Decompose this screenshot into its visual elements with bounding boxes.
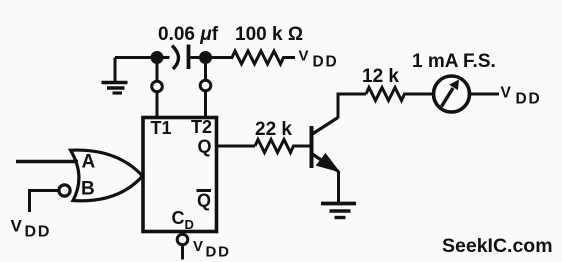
resistor R3 12k	[366, 88, 432, 101]
svg-text:C: C	[172, 208, 185, 228]
ground GND2	[321, 204, 356, 218]
node junction dot right	[199, 51, 212, 64]
transistor Q1	[312, 118, 340, 172]
svg-text:T2: T2	[191, 117, 212, 137]
svg-text:V: V	[501, 85, 512, 102]
pin circle CD	[177, 234, 188, 245]
svg-text:D: D	[185, 217, 194, 232]
wire	[204, 91, 207, 117]
ground GND1	[102, 58, 128, 94]
resistor R1 100k	[189, 51, 296, 64]
wire	[115, 56, 170, 59]
svg-text:T1: T1	[151, 118, 172, 138]
svg-text:DD: DD	[516, 91, 542, 108]
terminal circle right	[200, 80, 211, 91]
terminal circle left	[152, 81, 163, 92]
svg-text:100 k Ω: 100 k Ω	[235, 24, 303, 45]
node junction dot left	[151, 51, 164, 64]
svg-text:SeekIC.com: SeekIC.com	[442, 235, 553, 257]
inverter bubble B input	[59, 185, 70, 196]
wire	[156, 58, 159, 82]
wire	[181, 245, 184, 260]
svg-text:B: B	[81, 179, 95, 200]
meter M1	[434, 76, 470, 112]
wire	[204, 58, 207, 81]
svg-text:22 k: 22 k	[255, 119, 292, 140]
NOR gate G1	[71, 150, 143, 201]
svg-text:V: V	[299, 48, 309, 65]
wire emitter down	[337, 171, 340, 203]
wire Q output	[217, 145, 256, 148]
svg-text:DD: DD	[206, 244, 231, 261]
svg-text:0.06 μf: 0.06 μf	[158, 24, 219, 45]
wire	[470, 93, 500, 96]
capacitor C1 0.06uf	[172, 45, 189, 70]
svg-text:A: A	[82, 152, 96, 173]
wire collector up	[338, 94, 366, 118]
wire input B	[30, 191, 60, 213]
resistor R2 22k	[255, 140, 310, 153]
svg-text:DD: DD	[313, 54, 339, 71]
wire	[156, 92, 159, 117]
flip-flop U1	[143, 118, 217, 232]
svg-text:DD: DD	[25, 224, 52, 241]
svg-text:V: V	[11, 217, 23, 236]
svg-text:Q: Q	[197, 191, 211, 211]
svg-text:12 k: 12 k	[362, 66, 399, 87]
svg-text:1 mA F.S.: 1 mA F.S.	[412, 51, 496, 72]
svg-text:Q: Q	[198, 137, 212, 157]
svg-text:V: V	[193, 238, 203, 255]
wire input A	[16, 160, 78, 163]
